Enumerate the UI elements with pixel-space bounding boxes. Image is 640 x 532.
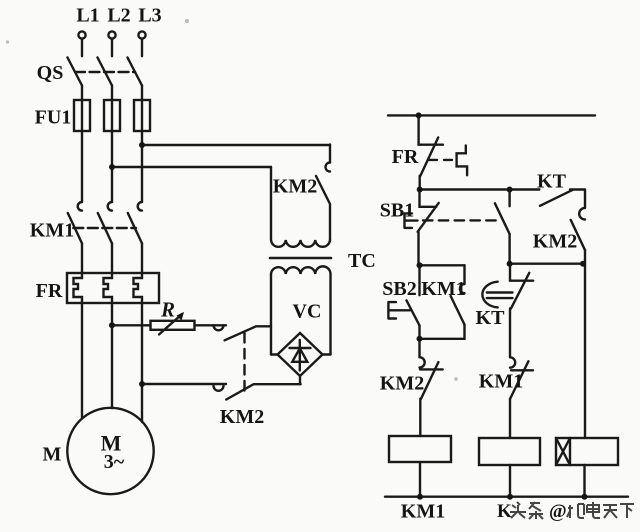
svg-text:K: K bbox=[497, 501, 512, 522]
svg-text:KM2: KM2 bbox=[533, 231, 577, 253]
svg-text:3~: 3~ bbox=[104, 451, 125, 473]
svg-text:FR: FR bbox=[36, 280, 63, 302]
svg-text:M: M bbox=[43, 444, 62, 466]
svg-text:KM2: KM2 bbox=[273, 176, 317, 198]
svg-text:SB1: SB1 bbox=[380, 200, 414, 222]
svg-text:L2: L2 bbox=[107, 5, 130, 27]
svg-text:R: R bbox=[160, 298, 175, 322]
svg-text:L3: L3 bbox=[138, 5, 161, 27]
svg-text:KM1: KM1 bbox=[479, 371, 523, 393]
svg-text:TC: TC bbox=[348, 250, 376, 272]
svg-text:KT: KT bbox=[537, 171, 567, 193]
svg-text:QS: QS bbox=[37, 62, 64, 84]
svg-text:@: @ bbox=[549, 501, 567, 522]
svg-text:FU1: FU1 bbox=[35, 107, 72, 129]
svg-text:KM2: KM2 bbox=[380, 373, 424, 395]
svg-text:KM1: KM1 bbox=[401, 501, 445, 523]
svg-text:FR: FR bbox=[392, 146, 419, 168]
svg-text:L1: L1 bbox=[76, 5, 99, 27]
svg-text:SB2: SB2 bbox=[382, 278, 416, 300]
svg-text:VC: VC bbox=[293, 301, 322, 323]
svg-text:KM1: KM1 bbox=[421, 278, 465, 300]
svg-text:KM1: KM1 bbox=[30, 220, 74, 242]
svg-text:KT: KT bbox=[476, 307, 506, 329]
svg-text:KM2: KM2 bbox=[220, 406, 264, 428]
